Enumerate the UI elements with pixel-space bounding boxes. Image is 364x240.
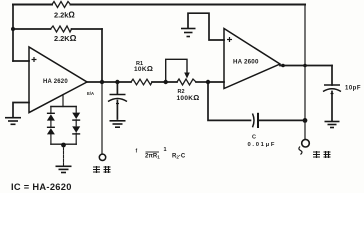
svg-text:f: f: [136, 149, 138, 155]
wire op1 plus input stub: [13, 60, 29, 62]
wire node to op2 minus input: [208, 81, 224, 83]
label output2 chinese glyphs: [313, 151, 331, 158]
squiggle AC mark: [299, 147, 302, 155]
label output1 chinese glyphs: [93, 166, 111, 173]
svg-text:2.2kΩ: 2.2kΩ: [54, 11, 75, 20]
junction node feedback output cross: [303, 64, 307, 68]
op-amp U1 plus sign: [32, 57, 37, 62]
junction node pot tap: [164, 80, 168, 84]
wire diode right branch top: [75, 107, 77, 113]
wire diode left branch mid: [50, 121, 52, 127]
wire diode network top rail: [51, 106, 76, 108]
wire 2.2K drop to op1 output: [101, 29, 103, 82]
svg-text:IC = HA-2620: IC = HA-2620: [11, 182, 72, 192]
wire op1 comp pin stub: [62, 95, 64, 107]
svg-text:2πR1: 2πR1: [145, 154, 160, 160]
diode D2 up left branch: [47, 127, 55, 135]
wire diode right branch bottom: [75, 133, 77, 144]
capacitor C1 curved bottom plate: [108, 99, 127, 102]
wire output1 drop: [101, 82, 103, 154]
capacitor 10pF bottom tick: [331, 93, 334, 95]
svg-text:100KΩ: 100KΩ: [177, 93, 200, 102]
svg-text:HA 2620: HA 2620: [43, 79, 68, 85]
op-amp U2 plus sign: [227, 37, 232, 42]
wire op1 output segment: [87, 81, 131, 83]
wire R1 to R2 segment: [152, 81, 177, 83]
svg-text:10KΩ: 10KΩ: [134, 64, 153, 73]
ground G1 op1 minus input: [5, 118, 21, 125]
wire 10pF cap to ground: [331, 92, 333, 121]
diode D1 up left branch: [47, 113, 55, 121]
resistor R2 zigzag: [177, 79, 196, 85]
svg-text:10pF: 10pF: [345, 86, 361, 92]
wire capacitor C1 tap: [116, 82, 118, 94]
svg-text:0.01μF: 0.01μF: [248, 142, 277, 148]
wire C right to junction: [260, 119, 306, 121]
junction node op2 minus: [206, 80, 210, 84]
resistor R1 zigzag: [131, 79, 152, 85]
wire diode network bottom rail: [51, 143, 76, 145]
ground G5 below diodes: [56, 166, 72, 172]
wire R2 to node segment: [196, 81, 208, 83]
wire diode rail to ground: [63, 144, 65, 166]
resistor R feedback 2.2k zigzag: [52, 2, 71, 8]
diode D4 down right branch: [72, 126, 80, 134]
wire op1 minus input to ground: [13, 103, 29, 118]
capacitor C series right plate: [257, 113, 259, 128]
diode D3 down right branch: [72, 113, 80, 121]
wire feedback drop / output terminal vertical: [304, 5, 306, 140]
capacitor 10pF top plate: [324, 84, 340, 86]
wire second feedback left segment: [13, 28, 51, 30]
junction node C1 tap: [115, 80, 119, 84]
wire C1 bottom to ground: [116, 101, 118, 120]
wire diode left branch bottom: [50, 134, 52, 144]
svg-text:HA 2600: HA 2600: [233, 59, 259, 66]
svg-text:1: 1: [164, 147, 167, 153]
junction node C output: [303, 118, 308, 123]
capacitor C1 bottom tick: [116, 103, 119, 105]
formula overbar artifact: [146, 151, 160, 153]
junction node op1 output: [100, 80, 104, 84]
svg-text:R2·C: R2·C: [172, 154, 186, 160]
ground G4 below 10pF: [325, 122, 340, 128]
op-amp U2 HA-2600 triangle: [224, 29, 280, 89]
svg-text:E/A: E/A: [87, 91, 94, 96]
wire diode right branch mid: [75, 120, 77, 126]
wire second feedback right segment: [72, 28, 103, 30]
junction node op2 apex: [281, 64, 285, 68]
capacitor C series left curved plate: [253, 114, 255, 128]
wire pot R2 wiper bracket: [166, 59, 187, 82]
wire diode left branch top: [50, 107, 52, 113]
junction node diode rail: [61, 143, 66, 148]
wire op2 plus input and ground jog: [188, 13, 224, 40]
wire left bus vertical: [12, 5, 14, 62]
pot R2 wiper arrowhead: [184, 73, 190, 79]
op-amp U1 HA-2620 triangle: [29, 47, 87, 113]
junction node top-left: [11, 27, 15, 31]
ground G3 op2 plus input: [181, 29, 196, 37]
svg-text:C: C: [252, 134, 256, 140]
capacitor 10pF curved bottom plate: [323, 89, 341, 92]
resistor 2.2K zigzag: [51, 26, 72, 32]
svg-text:2.2KΩ: 2.2KΩ: [54, 33, 77, 43]
wire top feedback right segment: [71, 4, 306, 6]
ground G2 below C1: [110, 121, 126, 127]
wire 10pF cap stub: [331, 66, 333, 86]
terminal output1 circle: [99, 154, 105, 160]
wire node down to C: [208, 82, 251, 120]
capacitor C1 top plate: [110, 94, 126, 96]
wire top feedback left segment: [13, 4, 52, 6]
terminal output2 circle: [302, 139, 310, 147]
wire op2 output: [280, 65, 332, 67]
